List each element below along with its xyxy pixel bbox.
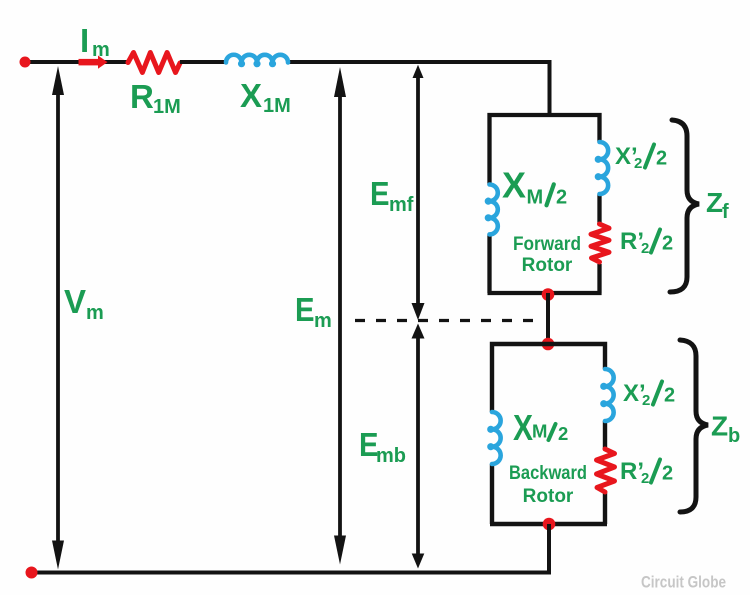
backward rotor box outline [490, 344, 607, 524]
inductor X'2/2 (forward, right side of box) [597, 142, 608, 194]
label Em [295, 291, 332, 332]
svg-text:mf: mf [389, 194, 414, 216]
svg-text:2: 2 [662, 233, 673, 255]
node terminal bottom-left (red dot) [26, 567, 38, 579]
svg-text:m: m [92, 39, 110, 61]
emf arrow Emf (double-headed vertical, top to dashed line) [412, 65, 425, 320]
svg-text:X: X [513, 407, 533, 448]
svg-text:M: M [532, 421, 547, 442]
voltage arrow Vm (double-headed vertical) [52, 66, 64, 570]
svg-text:2: 2 [556, 186, 567, 208]
node junction at backward rotor top (red dot) [542, 338, 555, 351]
wire top horizontal with right corner down to forward rotor box [25, 62, 550, 114]
wire bottom: from backward rotor bottom down and left to terminal [26, 524, 549, 573]
emf arrow Emb (double-headed vertical, dashed line to bottom) [412, 324, 425, 569]
svg-text:X: X [240, 77, 262, 114]
label Vm [64, 283, 104, 324]
svg-text:M: M [527, 186, 544, 208]
svg-text:R: R [130, 78, 154, 115]
svg-text:Z: Z [706, 187, 723, 218]
node junction at forward rotor bottom (red dot) [542, 288, 555, 301]
forward rotor box outline [488, 115, 602, 293]
label XM/2 (backward) [513, 407, 568, 448]
label R'2/2 (forward) [620, 228, 673, 257]
svg-text:m: m [86, 302, 104, 324]
node junction at backward rotor bottom (red dot) [543, 518, 556, 531]
label Im [80, 22, 110, 61]
inductor X1M [226, 55, 288, 65]
current arrow Im [79, 56, 108, 69]
label Zb [711, 411, 740, 448]
emf arrow Em (double-headed vertical) [334, 67, 346, 565]
brace for Zf [670, 120, 699, 292]
label Zf [706, 187, 729, 223]
svg-text:mb: mb [376, 445, 406, 467]
label X'2/2 (forward) [615, 143, 667, 172]
label Backward Rotor [509, 463, 587, 507]
svg-text:I: I [80, 22, 89, 59]
svg-text:V: V [64, 283, 86, 320]
svg-text:2: 2 [558, 423, 568, 444]
svg-text:2: 2 [641, 240, 649, 257]
wire between forward and backward rotor boxes [546, 293, 550, 344]
svg-text:Rotor: Rotor [522, 255, 573, 276]
svg-text:2: 2 [634, 155, 642, 172]
svg-text:Rotor: Rotor [523, 486, 574, 507]
svg-text:1M: 1M [263, 95, 291, 117]
inductor XM/2 (forward, left side of box) [487, 185, 498, 235]
svg-text:Z: Z [711, 411, 728, 442]
resistor R1M [128, 53, 180, 73]
label X1M [240, 77, 291, 117]
svg-text:2: 2 [641, 470, 649, 487]
label R1M [130, 78, 181, 118]
svg-text:2: 2 [642, 392, 650, 409]
svg-text:X: X [502, 165, 526, 206]
svg-text:Forward: Forward [513, 234, 581, 255]
label Emf [370, 175, 414, 216]
brace for Zb [680, 340, 708, 512]
label XM/2 (forward) [502, 165, 567, 209]
label Emb [359, 426, 406, 467]
svg-text:2: 2 [664, 385, 675, 407]
svg-text:1M: 1M [153, 96, 181, 118]
label X'2/2 (backward) [623, 380, 675, 409]
inductor XM/2 (backward, left side of box) [490, 412, 501, 464]
dashed reference line between forward and backward sections [355, 319, 541, 322]
svg-text:Circuit Globe: Circuit Globe [641, 573, 726, 592]
svg-text:Backward: Backward [509, 463, 587, 484]
svg-text:2: 2 [656, 148, 667, 170]
svg-text:m: m [314, 310, 332, 332]
label R'2/2 (backward) [620, 458, 673, 487]
node terminal top-left (red dot) [20, 57, 31, 68]
svg-text:f: f [722, 201, 729, 223]
resistor R'2/2 (forward, right side of box) [591, 224, 609, 262]
svg-text:2: 2 [662, 463, 673, 485]
svg-text:E: E [370, 175, 390, 212]
svg-text:b: b [728, 425, 740, 447]
label Forward Rotor [513, 234, 581, 276]
wire between resistor and inductor [180, 60, 226, 64]
inductor X'2/2 (backward, right side of box) [603, 369, 614, 421]
resistor R'2/2 (backward, right side of box) [597, 449, 615, 492]
svg-text:E: E [295, 291, 315, 328]
